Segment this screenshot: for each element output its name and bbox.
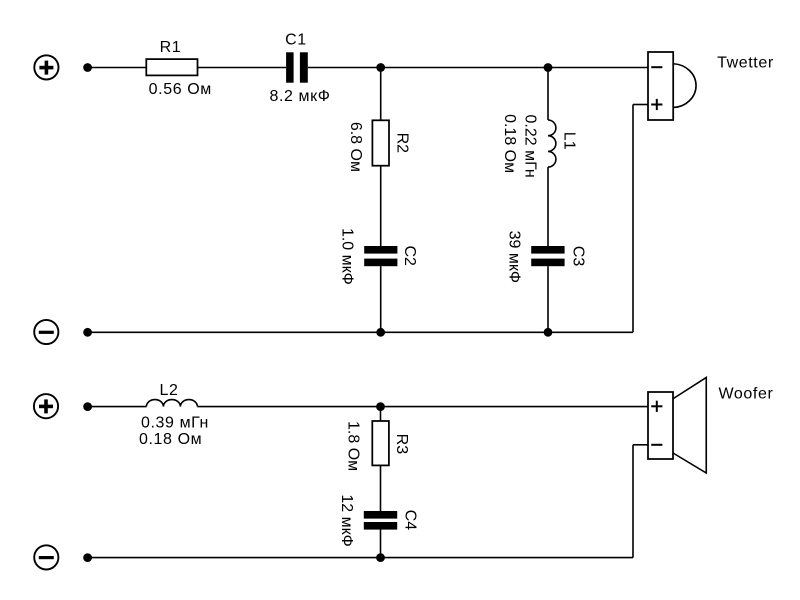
wire node B down to L1 (547, 68, 549, 121)
terminal plus (tweeter input) (34, 55, 58, 79)
capacitor C3 (531, 246, 564, 266)
node A (top rail / R2 branch) (376, 63, 385, 72)
wire L1 to C3 (547, 167, 549, 246)
inductor L2 (146, 400, 197, 407)
node dot (woofer return left) (83, 553, 92, 562)
wire tweeter plus to down wire (633, 104, 648, 106)
wire C4 to bottom rail (380, 530, 382, 558)
woofer cone (673, 378, 706, 474)
svg-text:8.2 мкФ: 8.2 мкФ (269, 88, 330, 105)
tweeter body (648, 52, 673, 120)
inductor L1 (548, 120, 556, 167)
svg-text:C1: C1 (285, 32, 307, 49)
wire R3 to C4 (380, 465, 382, 511)
node B (top rail / L1 branch) (544, 63, 553, 72)
svg-text:C4: C4 (402, 510, 419, 531)
capacitor C4 (364, 511, 397, 530)
svg-text:R2: R2 (394, 133, 411, 154)
svg-text:1.0 мкФ: 1.0 мкФ (339, 228, 356, 285)
wire C1 to tweeter (308, 67, 648, 69)
resistor R1 (146, 59, 197, 75)
woofer body (648, 392, 673, 459)
terminal plus (woofer input) (34, 394, 58, 418)
junction dot C2/rail (376, 328, 385, 337)
svg-text:L1: L1 (560, 132, 577, 150)
capacitor C2 (364, 246, 397, 266)
capacitor C1 (286, 52, 308, 82)
wire node A down to R2 (380, 68, 382, 121)
junction dot C3/rail (544, 328, 553, 337)
resistor R3 (372, 421, 389, 465)
svg-text:Twetter: Twetter (717, 54, 774, 71)
wire down right side tweeter (632, 105, 634, 333)
tweeter dome (673, 64, 696, 108)
tweeter pin minus (651, 66, 662, 68)
wire tweeter return rail (88, 331, 633, 333)
svg-text:6.8 Ом: 6.8 Ом (347, 122, 364, 172)
junction dot C4/rail (376, 553, 385, 562)
svg-text:1.8 Ом: 1.8 Ом (345, 421, 362, 471)
woofer U2 (648, 378, 706, 474)
node dot (top rail left) (83, 63, 92, 72)
svg-text:0.56 Ом: 0.56 Ом (149, 81, 212, 98)
wire C3 to bottom rail (547, 266, 549, 332)
svg-text:Woofer: Woofer (719, 386, 774, 403)
wire L2 to woofer (197, 406, 648, 408)
wire top rail: dot to R1 (88, 67, 147, 69)
svg-text:39 мкФ: 39 мкФ (505, 231, 522, 283)
svg-text:0.39 мГн: 0.39 мГн (141, 415, 209, 432)
svg-text:L2: L2 (160, 382, 179, 399)
terminal minus (woofer return) (34, 545, 58, 569)
svg-text:C3: C3 (570, 246, 587, 267)
svg-text:12 мкФ: 12 мкФ (338, 494, 355, 546)
wire R2 to C2 (380, 166, 382, 246)
wire down right side woofer (632, 445, 634, 558)
woofer pin plus (651, 405, 662, 407)
tweeter pin plus (651, 104, 662, 106)
wire R1 to C1 (198, 67, 287, 69)
svg-text:R3: R3 (393, 434, 410, 455)
node C (woofer rail / R3 branch) (376, 402, 385, 411)
svg-text:0.22 мГн: 0.22 мГн (521, 115, 538, 178)
tweeter U1 (648, 52, 696, 120)
resistor R2 (372, 120, 389, 165)
node dot (woofer rail left) (83, 402, 92, 411)
wire node C down to R3 (380, 407, 382, 421)
svg-text:C2: C2 (401, 245, 418, 266)
svg-text:R1: R1 (160, 39, 182, 56)
svg-text:0.18 Ом: 0.18 Ом (501, 114, 518, 173)
wire woofer return rail (88, 557, 633, 559)
terminal minus (tweeter return) (34, 320, 58, 344)
wire woofer minus to down wire (633, 444, 648, 446)
node dot (tweeter return left) (83, 328, 92, 337)
woofer pin minus (651, 444, 662, 446)
svg-text:0.18 Ом: 0.18 Ом (139, 431, 202, 448)
wire C2 to bottom rail (380, 266, 382, 332)
wire woofer rail: dot to L2 (88, 406, 147, 408)
